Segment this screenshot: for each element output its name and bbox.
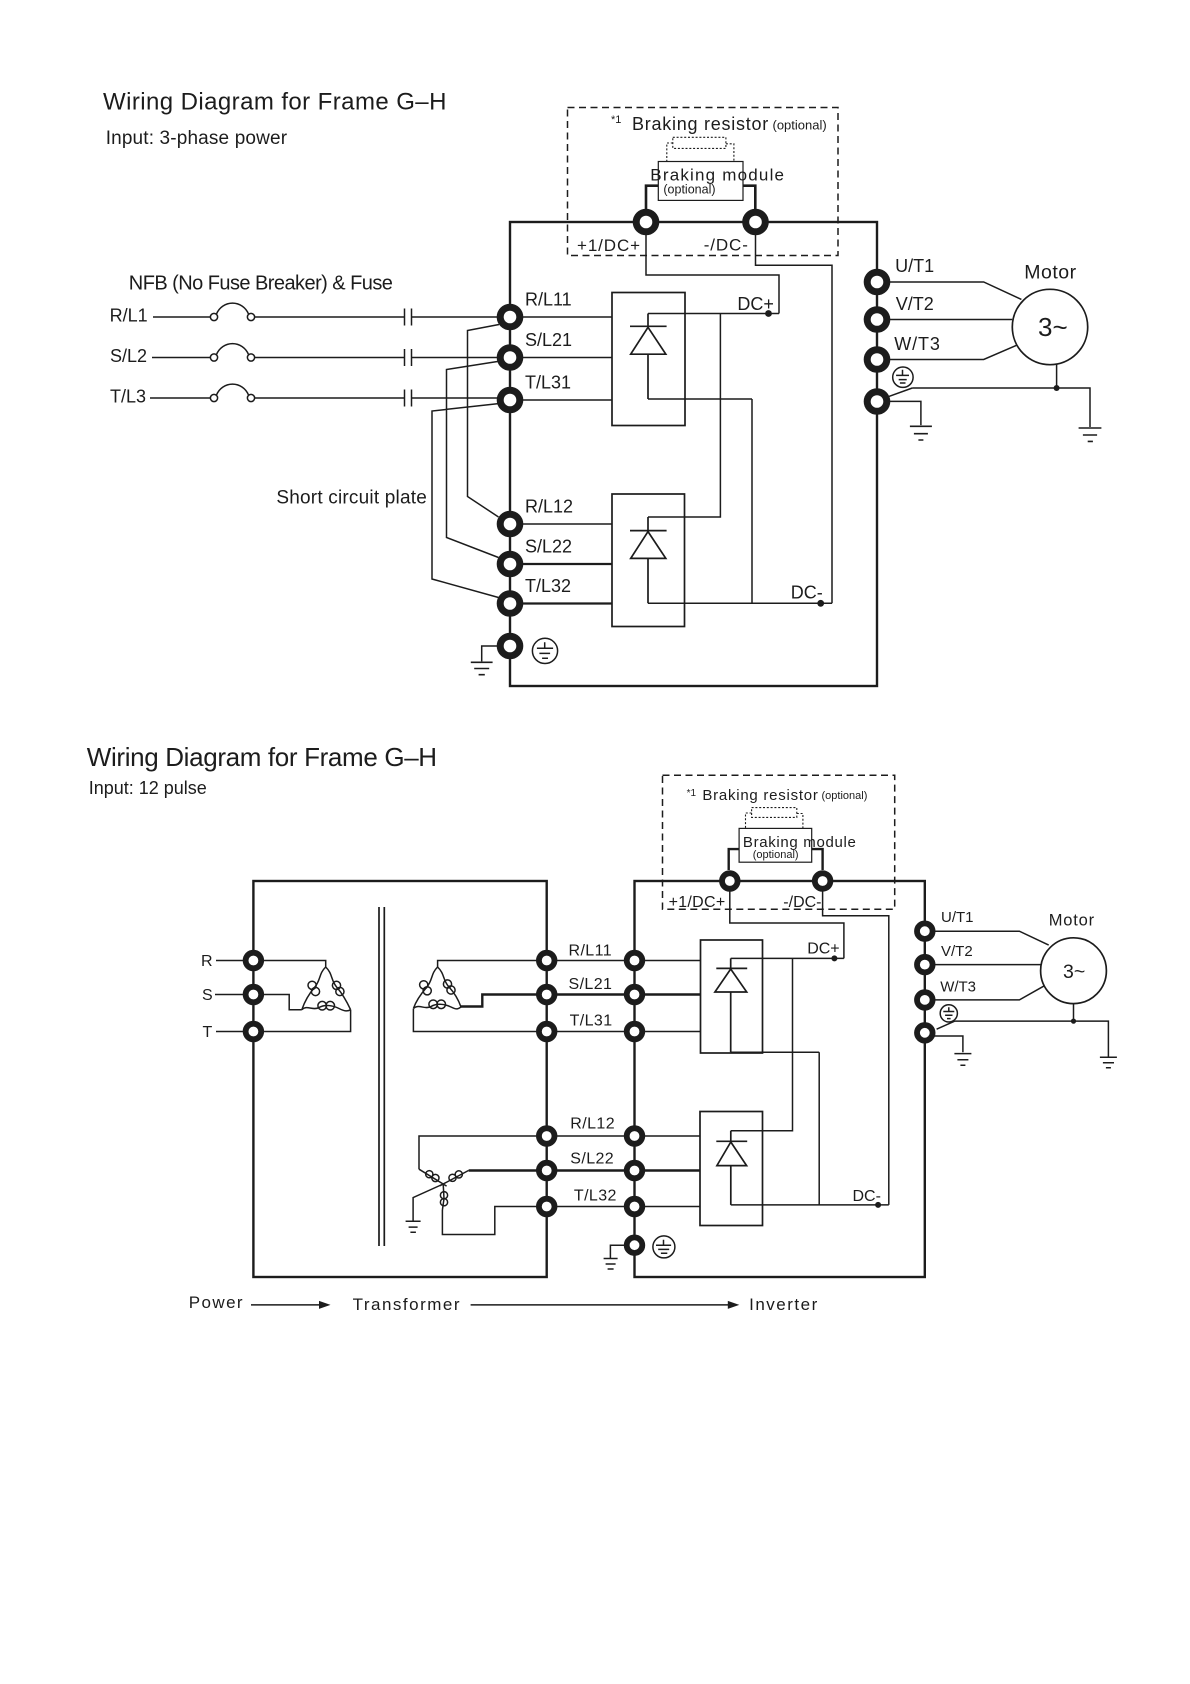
svg-text:T: T <box>203 1024 213 1041</box>
svg-text:T/L3: T/L3 <box>110 386 146 406</box>
svg-text:DC-: DC- <box>791 583 823 603</box>
svg-text:R/L11: R/L11 <box>569 942 613 959</box>
svg-text:R: R <box>201 953 213 970</box>
svg-text:U/T1: U/T1 <box>941 909 974 926</box>
svg-text:Inverter: Inverter <box>749 1295 819 1314</box>
svg-text:+1/DC+: +1/DC+ <box>577 236 641 255</box>
svg-text:R/L1: R/L1 <box>110 306 148 326</box>
svg-text:U/T1: U/T1 <box>895 256 934 276</box>
svg-text:R/L12: R/L12 <box>570 1116 615 1133</box>
svg-text:(optional): (optional) <box>663 182 715 196</box>
svg-text:Wiring Diagram for Frame G–H: Wiring Diagram for Frame G–H <box>103 88 447 115</box>
svg-text:R/L11: R/L11 <box>525 290 572 310</box>
svg-text:Power: Power <box>189 1293 244 1312</box>
svg-text:S/L22: S/L22 <box>525 537 572 557</box>
svg-text:S/L21: S/L21 <box>569 976 613 993</box>
svg-text:+1/DC+: +1/DC+ <box>669 894 726 911</box>
svg-text:(optional): (optional) <box>822 790 868 802</box>
svg-text:Wiring Diagram for Frame G–H: Wiring Diagram for Frame G–H <box>87 742 437 772</box>
svg-text:S/L21: S/L21 <box>525 330 572 350</box>
svg-text:Transformer: Transformer <box>353 1295 461 1314</box>
svg-text:*1: *1 <box>611 114 621 126</box>
svg-text:3~: 3~ <box>1038 312 1068 342</box>
svg-text:T/L31: T/L31 <box>570 1013 613 1030</box>
svg-text:NFB (No Fuse Breaker) & Fuse: NFB (No Fuse Breaker) & Fuse <box>129 272 393 294</box>
svg-text:Motor: Motor <box>1024 262 1076 284</box>
svg-text:-/DC-: -/DC- <box>783 894 821 911</box>
svg-text:Input: 3-phase power: Input: 3-phase power <box>106 128 288 149</box>
svg-text:Short circuit plate: Short circuit plate <box>276 488 427 509</box>
svg-text:T/L32: T/L32 <box>574 1188 617 1205</box>
svg-text:(optional): (optional) <box>773 118 827 133</box>
svg-text:(optional): (optional) <box>753 849 799 861</box>
svg-text:T/L31: T/L31 <box>525 373 571 393</box>
svg-text:R/L12: R/L12 <box>525 497 573 517</box>
svg-text:V/T2: V/T2 <box>896 294 934 314</box>
svg-text:S/L22: S/L22 <box>570 1150 614 1167</box>
svg-text:Input: 12 pulse: Input: 12 pulse <box>89 778 207 798</box>
svg-text:W/T3: W/T3 <box>940 978 976 995</box>
svg-text:*1: *1 <box>687 788 697 799</box>
svg-text:V/T2: V/T2 <box>941 943 973 960</box>
svg-text:3~: 3~ <box>1063 961 1085 983</box>
svg-text:DC-: DC- <box>853 1188 881 1205</box>
svg-text:DC+: DC+ <box>807 940 839 957</box>
svg-text:S/L2: S/L2 <box>110 346 147 366</box>
svg-text:Motor: Motor <box>1049 912 1095 930</box>
svg-text:T/L32: T/L32 <box>525 576 571 596</box>
svg-text:W/T3: W/T3 <box>894 334 940 354</box>
svg-text:Braking resistor: Braking resistor <box>702 787 818 804</box>
svg-text:Braking resistor: Braking resistor <box>632 114 769 134</box>
svg-text:DC+: DC+ <box>737 294 774 314</box>
svg-text:-/DC-: -/DC- <box>704 235 749 254</box>
svg-text:S: S <box>202 987 213 1004</box>
